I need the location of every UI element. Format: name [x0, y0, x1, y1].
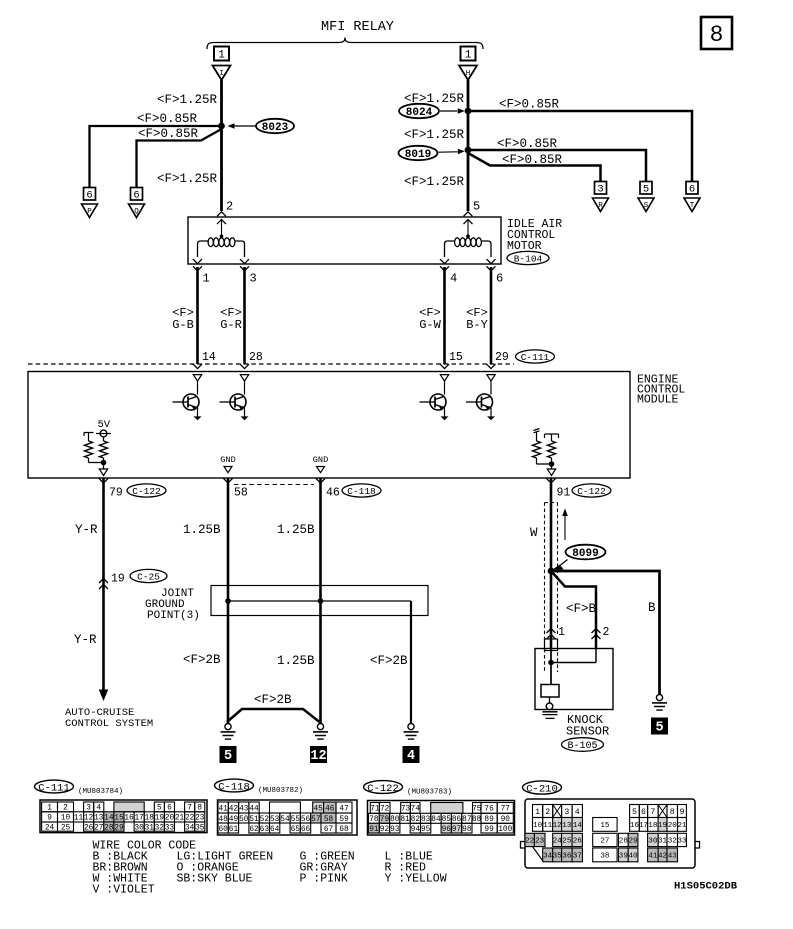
svg-text:<F>1.25R: <F>1.25R — [404, 128, 465, 142]
svg-text:27: 27 — [94, 824, 104, 832]
ECM pin 14 input triangle — [193, 375, 201, 382]
svg-text:R: R — [598, 202, 603, 210]
svg-text:6: 6 — [133, 190, 139, 202]
node right junction 1 — [465, 108, 472, 115]
svg-text:4: 4 — [575, 808, 580, 817]
wire inside sensor — [550, 649, 552, 685]
svg-text:26: 26 — [84, 824, 94, 832]
joint ground bus wire — [228, 600, 411, 602]
svg-text:2: 2 — [545, 808, 550, 817]
svg-text:30: 30 — [648, 838, 658, 846]
svg-text:29: 29 — [495, 351, 509, 364]
svg-text:6: 6 — [86, 190, 92, 202]
node shield junction — [548, 568, 555, 575]
svg-text:61: 61 — [229, 826, 239, 834]
resistor (knock filter right) — [545, 434, 559, 438]
wire from left relay terminal — [220, 80, 223, 211]
svg-text:MODULE: MODULE — [637, 394, 679, 407]
svg-text:1: 1 — [558, 626, 565, 639]
coil right (pins 4-6) — [445, 241, 455, 257]
svg-text:10: 10 — [533, 822, 543, 830]
arrow to auto-cruise — [99, 690, 109, 702]
coil left (pins 1-3) — [198, 241, 209, 257]
resistor (5V pull-up) — [103, 437, 105, 441]
svg-text:P :PINK: P :PINK — [300, 873, 348, 886]
ECM pin 15 input triangle — [440, 375, 448, 382]
node right junction 2 — [465, 147, 472, 154]
svg-text:31: 31 — [145, 824, 155, 832]
ECM pin 91 output triangle — [547, 469, 555, 476]
svg-text:37: 37 — [573, 853, 582, 861]
svg-text:<F>1.25R: <F>1.25R — [157, 172, 218, 186]
wire shield to ground B — [551, 571, 660, 695]
svg-text:5: 5 — [224, 749, 232, 764]
pin 91 exit fork — [547, 479, 556, 484]
svg-text:54: 54 — [280, 816, 290, 824]
terminal MFI relay pin 1 (right) — [461, 47, 476, 61]
svg-text:(MU803784): (MU803784) — [78, 788, 123, 796]
svg-text:8024: 8024 — [406, 107, 433, 119]
resistor (internal) — [84, 433, 94, 437]
svg-text:MFI RELAY: MFI RELAY — [321, 20, 394, 35]
svg-text:V :VIOLET: V :VIOLET — [93, 884, 155, 897]
svg-text:44: 44 — [249, 805, 259, 813]
svg-text:84: 84 — [431, 816, 441, 824]
connector C-111 oval — [516, 350, 555, 363]
svg-text:36: 36 — [562, 853, 572, 861]
connector C-122 oval (right) — [572, 484, 611, 497]
svg-text:25: 25 — [562, 838, 572, 846]
svg-text:GND: GND — [313, 455, 328, 465]
svg-text:62: 62 — [249, 826, 259, 834]
svg-text:G-W: G-W — [419, 318, 441, 332]
transistor — [230, 394, 246, 410]
svg-text:G-R: G-R — [220, 318, 242, 332]
svg-text:100: 100 — [498, 826, 512, 834]
shield dashed box — [545, 502, 558, 504]
svg-text:35: 35 — [195, 824, 205, 832]
svg-text:3: 3 — [564, 808, 569, 817]
ECM pin 29 input triangle — [487, 375, 495, 382]
svg-text:22: 22 — [525, 838, 535, 846]
svg-text:75: 75 — [472, 806, 482, 814]
svg-text:76: 76 — [484, 806, 494, 814]
transistor — [183, 394, 199, 410]
svg-text:S: S — [644, 202, 649, 210]
svg-text:C-118: C-118 — [218, 781, 250, 793]
svg-text:77: 77 — [501, 806, 511, 814]
svg-text:W: W — [530, 526, 538, 540]
ground (4) — [408, 724, 414, 730]
svg-text:68: 68 — [339, 826, 349, 834]
svg-text:21: 21 — [677, 822, 687, 830]
pin 58 exit fork — [224, 479, 233, 484]
ground id 12 — [310, 746, 327, 763]
svg-text:B-104: B-104 — [514, 253, 543, 264]
svg-text:40: 40 — [628, 853, 638, 861]
svg-text:1: 1 — [535, 808, 540, 817]
svg-text:<F>2B: <F>2B — [183, 653, 221, 667]
idle air control motor box — [188, 217, 501, 264]
svg-text:39: 39 — [619, 853, 629, 861]
svg-text:14: 14 — [202, 351, 216, 364]
svg-text:13: 13 — [562, 822, 572, 830]
svg-text:<F>B: <F>B — [566, 602, 597, 616]
connector C-210 row 3 — [525, 833, 534, 846]
ground id 5 — [220, 746, 237, 763]
svg-text:71: 71 — [370, 806, 380, 814]
svg-text:POINT(3): POINT(3) — [147, 610, 200, 622]
knock sensor element — [541, 685, 559, 698]
svg-text:C-111: C-111 — [521, 352, 550, 363]
wire pin3 to ECM 28 — [243, 267, 246, 364]
pin 79 exit fork — [99, 479, 108, 484]
wire pin46 1.25B — [319, 478, 322, 723]
svg-text:C-25: C-25 — [137, 571, 160, 582]
ground (5) — [225, 724, 231, 730]
svg-text:Q: Q — [134, 208, 139, 216]
knock sensor pin 1 chevrons — [547, 629, 556, 634]
resistor (knock filter left) — [534, 429, 540, 433]
svg-text:18: 18 — [648, 822, 658, 830]
svg-text:6: 6 — [689, 184, 695, 196]
engine control module box — [28, 372, 630, 479]
svg-text:38: 38 — [600, 853, 610, 861]
svg-text:63: 63 — [260, 826, 270, 834]
connector table C-122 header — [364, 781, 403, 794]
svg-text:C-111: C-111 — [38, 782, 70, 794]
inline connector C-25 pin 19 chevrons — [99, 579, 108, 584]
ground jumper wire — [227, 709, 320, 722]
svg-text:3: 3 — [250, 272, 257, 286]
ground id 4 — [403, 746, 420, 763]
svg-text:4: 4 — [450, 272, 457, 286]
svg-text:46: 46 — [326, 487, 340, 500]
joint ground point box — [211, 586, 428, 616]
svg-text:35: 35 — [553, 853, 563, 861]
node sensor — [548, 660, 554, 666]
svg-text:43: 43 — [239, 805, 249, 813]
svg-text:B: B — [648, 601, 656, 615]
svg-text:CONTROL SYSTEM: CONTROL SYSTEM — [65, 718, 153, 730]
svg-text:<F>1.25R: <F>1.25R — [157, 93, 218, 107]
svg-text:15: 15 — [449, 351, 463, 364]
svg-text:20: 20 — [668, 822, 678, 830]
splice 8023 — [256, 119, 294, 133]
splice 8019 — [399, 146, 438, 160]
svg-text:Y :YELLOW: Y :YELLOW — [385, 873, 447, 886]
svg-text:17: 17 — [639, 822, 648, 830]
svg-text:1.25B: 1.25B — [277, 523, 315, 537]
svg-text:92: 92 — [380, 826, 390, 834]
ground (12) — [317, 724, 323, 730]
svg-text:<F>1.25R: <F>1.25R — [404, 175, 465, 189]
connector C-118 oval — [342, 484, 381, 497]
connector C-122 oval — [127, 484, 166, 497]
connector table C-122 — [368, 801, 515, 836]
svg-text:(MU803783): (MU803783) — [407, 789, 452, 797]
connector line C-111 (dashed) — [28, 363, 514, 365]
pin 15 crossing fork — [440, 364, 449, 369]
wire branch to terminal 6/T — [468, 111, 692, 182]
svg-text:94: 94 — [411, 826, 421, 834]
connector C-210 row 4 — [543, 848, 553, 862]
svg-text:G-B: G-B — [172, 318, 194, 332]
svg-text:16: 16 — [124, 815, 134, 823]
wire from right relay terminal — [467, 80, 470, 211]
pin 4 exit arrows — [440, 259, 449, 264]
svg-text:5: 5 — [473, 200, 480, 214]
svg-text:19: 19 — [111, 573, 125, 586]
terminal 5/S — [640, 182, 652, 195]
svg-text:25: 25 — [61, 824, 71, 832]
svg-text:6: 6 — [641, 808, 646, 817]
svg-text:Y-R: Y-R — [74, 633, 97, 647]
wire shield drain to pin 2 — [551, 571, 596, 649]
connector B-104 — [507, 251, 549, 264]
svg-text:65: 65 — [291, 826, 301, 834]
svg-text:P: P — [87, 208, 92, 216]
wire internal junction — [537, 463, 552, 465]
svg-text:43: 43 — [668, 853, 678, 861]
splice 8099 — [566, 545, 606, 560]
wire pin58 1.25B — [227, 478, 230, 723]
transistor — [430, 394, 446, 410]
sensor case ground — [546, 703, 553, 710]
svg-text:8023: 8023 — [262, 122, 289, 134]
wire branch to terminal 5/S — [468, 150, 646, 182]
svg-text:28: 28 — [619, 838, 629, 846]
ground id 5 right — [651, 718, 668, 735]
svg-text:1.25B: 1.25B — [183, 523, 221, 537]
svg-text:C-118: C-118 — [347, 486, 376, 497]
svg-text:73: 73 — [401, 806, 411, 814]
pin 14 crossing fork — [193, 364, 202, 369]
svg-text:97: 97 — [452, 826, 462, 834]
svg-text:11: 11 — [74, 815, 84, 823]
wire internal junction — [89, 462, 104, 464]
svg-text:93: 93 — [390, 826, 400, 834]
wire — [244, 381, 246, 395]
svg-text:99: 99 — [484, 826, 494, 834]
svg-text:5: 5 — [643, 184, 649, 196]
connector C-25 oval — [130, 569, 167, 582]
svg-text:H1S05C02DB: H1S05C02DB — [674, 881, 738, 893]
pin 28 crossing fork — [240, 364, 249, 369]
svg-text:31: 31 — [658, 838, 668, 846]
svg-text:58: 58 — [234, 487, 248, 500]
wire pin79 Y-R — [102, 478, 105, 692]
svg-text:29: 29 — [114, 824, 124, 832]
brace under MFI RELAY — [207, 38, 483, 50]
svg-text:12: 12 — [553, 822, 563, 830]
svg-text:42: 42 — [658, 853, 668, 861]
svg-text:T: T — [690, 202, 695, 210]
svg-text:11: 11 — [543, 822, 553, 830]
svg-text:88: 88 — [472, 816, 482, 824]
svg-text:79: 79 — [109, 487, 123, 500]
wire branch to terminal 3/R — [468, 153, 601, 182]
svg-text:5: 5 — [632, 808, 637, 817]
wire pin1 to ECM 14 — [196, 267, 199, 364]
svg-text:46: 46 — [325, 805, 335, 813]
svg-text:4: 4 — [407, 749, 415, 764]
svg-text:47: 47 — [339, 805, 349, 813]
svg-text:66: 66 — [301, 826, 311, 834]
svg-text:1.25B: 1.25B — [277, 654, 315, 668]
svg-text:64: 64 — [270, 826, 280, 834]
svg-text:C-122: C-122 — [132, 486, 161, 497]
svg-text:67: 67 — [324, 826, 334, 834]
svg-text:(MU803782): (MU803782) — [258, 787, 303, 795]
svg-text:28: 28 — [104, 824, 114, 832]
wire branch to terminal 6/P — [90, 126, 222, 188]
svg-text:5: 5 — [655, 721, 663, 736]
svg-text:21: 21 — [175, 815, 185, 823]
connector C-210 row 1 — [533, 805, 543, 818]
terminal 6/T — [686, 182, 698, 195]
connector table C-118 — [218, 800, 358, 835]
svg-text:28: 28 — [249, 351, 263, 364]
svg-text:3: 3 — [597, 184, 603, 196]
terminal 6/Q — [131, 188, 143, 201]
connector C-210 shell — [525, 799, 695, 868]
connector table C-111 header — [35, 780, 74, 793]
svg-text:19: 19 — [658, 822, 668, 830]
wire — [197, 381, 199, 395]
pin 1 exit arrows — [193, 259, 202, 264]
svg-text:33: 33 — [165, 824, 175, 832]
svg-text:SB:SKY BLUE: SB:SKY BLUE — [177, 873, 253, 886]
signal direction arrow — [564, 514, 566, 540]
terminal 6/P — [84, 188, 96, 201]
ECM pin 79 output triangle — [99, 469, 107, 476]
svg-text:<F>0.85R: <F>0.85R — [137, 112, 198, 126]
node joint 46 — [318, 598, 324, 604]
transistor — [477, 394, 493, 410]
svg-text:5V: 5V — [98, 419, 111, 431]
splice 8024 — [399, 104, 439, 118]
svg-text:14: 14 — [573, 822, 583, 830]
shield termination rect — [545, 639, 558, 651]
svg-text:41: 41 — [218, 805, 228, 813]
svg-text:1: 1 — [465, 50, 472, 62]
svg-text:34: 34 — [185, 824, 195, 832]
svg-text:I: I — [219, 70, 224, 78]
svg-text:2: 2 — [226, 200, 233, 214]
svg-text:1: 1 — [203, 272, 210, 286]
pin 46 exit fork — [316, 479, 325, 484]
svg-text:9: 9 — [679, 808, 684, 817]
pin 29 crossing fork — [487, 364, 496, 369]
connector table C-210 header — [523, 781, 562, 794]
svg-text:60: 60 — [218, 826, 228, 834]
pin 3 exit arrows — [240, 259, 249, 264]
svg-text:<F>0.85R: <F>0.85R — [497, 137, 558, 151]
pin 2 entry arrows — [217, 212, 226, 217]
svg-text:1: 1 — [218, 50, 225, 62]
svg-text:<F>0.85R: <F>0.85R — [138, 127, 199, 141]
svg-text:<F>2B: <F>2B — [370, 654, 408, 668]
svg-text:32: 32 — [668, 838, 678, 846]
wire pin4 to ECM 15 — [443, 267, 446, 364]
svg-text:91: 91 — [557, 487, 571, 500]
svg-text:96: 96 — [442, 826, 452, 834]
svg-text:C-122: C-122 — [367, 783, 399, 795]
dashed connector segment 58-46 — [234, 484, 314, 486]
wire branch to terminal 6/Q — [137, 129, 222, 188]
svg-text:Y-R: Y-R — [75, 523, 98, 537]
connector C-210 row 2 — [533, 818, 543, 832]
svg-text:24: 24 — [553, 838, 563, 846]
svg-text:8099: 8099 — [572, 548, 598, 560]
svg-text:29: 29 — [628, 838, 638, 846]
svg-text:34: 34 — [543, 853, 553, 861]
connector B-105 — [562, 738, 604, 752]
svg-text:<F>0.85R: <F>0.85R — [499, 98, 560, 112]
svg-text:8: 8 — [670, 808, 675, 817]
ground (5) right — [656, 695, 662, 701]
svg-text:C-122: C-122 — [577, 486, 606, 497]
svg-text:32: 32 — [155, 824, 165, 832]
svg-text:24: 24 — [45, 824, 55, 832]
svg-text:91: 91 — [369, 826, 379, 834]
pin 5 entry arrows — [464, 212, 473, 217]
wire pin91 W (shielded) — [550, 478, 553, 649]
connector table C-111 — [40, 800, 207, 833]
svg-text:45: 45 — [313, 805, 323, 813]
connector table C-118 header — [215, 779, 254, 792]
svg-text:33: 33 — [677, 838, 687, 846]
terminal MFI relay pin 1 (left) — [214, 47, 229, 61]
svg-text:41: 41 — [648, 853, 658, 861]
svg-text:50: 50 — [239, 816, 249, 824]
wire pin6 to ECM 29 — [490, 267, 493, 364]
wire joint to ground 4 — [410, 601, 412, 723]
svg-text:SENSOR: SENSOR — [566, 725, 609, 739]
svg-text:GND: GND — [220, 455, 235, 465]
svg-text:B-Y: B-Y — [466, 318, 488, 332]
node joint 58 — [225, 598, 231, 604]
svg-text:27: 27 — [600, 838, 609, 846]
pin 6 exit arrows — [487, 259, 496, 264]
wire — [444, 381, 446, 395]
svg-text:23: 23 — [535, 838, 545, 846]
svg-text:2: 2 — [603, 626, 610, 639]
ECM pin 28 input triangle — [240, 375, 248, 382]
svg-text:<F>2B: <F>2B — [254, 693, 292, 707]
svg-text:57: 57 — [311, 816, 321, 824]
terminal 3/R — [595, 182, 607, 195]
svg-text:8: 8 — [710, 22, 724, 48]
svg-text:30: 30 — [134, 824, 144, 832]
svg-text:B-105: B-105 — [567, 741, 597, 752]
svg-text:7: 7 — [650, 808, 655, 817]
svg-text:15: 15 — [600, 822, 610, 830]
svg-text:6: 6 — [496, 272, 503, 286]
svg-text:<F>0.85R: <F>0.85R — [502, 153, 563, 167]
svg-text:98: 98 — [462, 826, 472, 834]
svg-text:C-210: C-210 — [526, 783, 558, 795]
page number box 8 — [701, 17, 732, 49]
knock sensor pin 2 chevrons — [592, 629, 601, 634]
svg-text:72: 72 — [380, 806, 390, 814]
node left junction — [218, 123, 225, 130]
svg-text:12: 12 — [310, 749, 326, 764]
wire — [490, 381, 492, 395]
svg-text:26: 26 — [573, 838, 583, 846]
svg-text:42: 42 — [229, 805, 239, 813]
